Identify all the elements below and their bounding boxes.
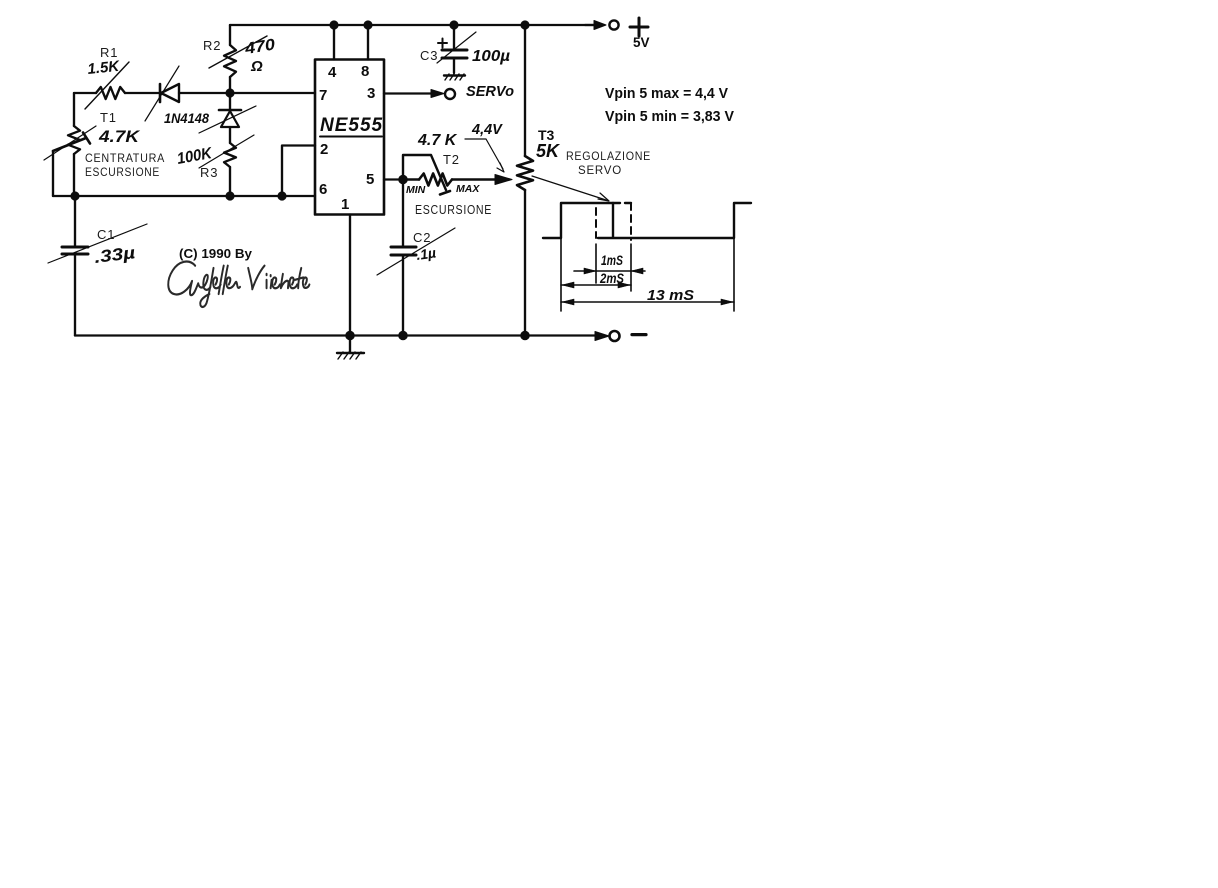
svg-text:CENTRATURA: CENTRATURA (85, 151, 165, 165)
svg-text:2: 2 (320, 141, 328, 158)
svg-text:7: 7 (319, 87, 327, 104)
trimmer T2 (403, 132, 512, 196)
svg-text:1N4148: 1N4148 (164, 110, 209, 126)
svg-text:C1: C1 (97, 227, 115, 242)
wire left vertical T1 branch (73, 93, 75, 196)
svg-text:T1: T1 (100, 110, 117, 125)
svg-text:ESCURSIONE: ESCURSIONE (415, 203, 492, 217)
label Vpin max/min (605, 85, 734, 125)
label REGOLAZIONE SERVO (566, 149, 651, 177)
node junction C3 top (451, 22, 458, 29)
resistor R1 (85, 45, 129, 109)
node junction R2/D1/pin7 (227, 90, 234, 97)
wire arrow T3 to waveform (532, 176, 609, 201)
pin 1 (341, 196, 350, 336)
svg-text:1mS: 1mS (601, 252, 623, 268)
label 4,4V with arrow (465, 122, 504, 172)
node junction T3 bottom (521, 332, 528, 339)
terminal +5V (585, 18, 650, 50)
svg-text:1.5K: 1.5K (87, 58, 121, 78)
wire top +5V rail (230, 24, 600, 26)
dimension 1mS (574, 252, 645, 274)
node junction R3 bottom (227, 193, 234, 200)
svg-text:8: 8 (361, 63, 369, 80)
svg-text:ESCURSIONE: ESCURSIONE (85, 165, 160, 179)
ground (337, 332, 364, 359)
resistor R2 (203, 25, 276, 93)
svg-text:R2: R2 (203, 38, 221, 53)
node junction T1 bottom (72, 193, 79, 200)
svg-text:Ω: Ω (250, 58, 263, 75)
diode D1 1N4148 (145, 66, 209, 126)
trimmer T1 (44, 110, 141, 160)
node junction T3 top (522, 22, 529, 29)
label ESCURSIONE (415, 203, 492, 217)
waveform dimension extension lines (561, 238, 734, 311)
svg-text:5K: 5K (536, 141, 561, 161)
svg-text:.1µ: .1µ (415, 244, 437, 263)
svg-text:SERVo: SERVo (466, 83, 514, 100)
svg-text:2mS: 2mS (599, 270, 624, 286)
pin 4 (328, 22, 337, 81)
diode D2 zener (199, 93, 256, 143)
svg-text:6: 6 (319, 181, 327, 198)
svg-text:4.7K: 4.7K (98, 127, 141, 146)
svg-text:R3: R3 (200, 165, 218, 180)
svg-text:T2: T2 (443, 152, 460, 167)
capacitor C3 (420, 25, 510, 80)
op-amp U1 NE555 box (315, 60, 384, 215)
svg-text:NE555: NE555 (320, 115, 383, 136)
dimension 13mS (561, 287, 734, 305)
resistor R3 (176, 135, 254, 196)
svg-text:C2: C2 (413, 230, 431, 245)
svg-text:4: 4 (328, 64, 337, 81)
svg-text:100µ: 100µ (472, 48, 510, 65)
signature Chapella Vittorio (168, 262, 309, 307)
svg-text:MIN: MIN (406, 184, 426, 196)
pin 5 (366, 171, 403, 188)
label copyright (179, 246, 253, 261)
pin 6 (319, 181, 327, 198)
svg-text:Vpin 5 min = 3,83 V: Vpin 5 min = 3,83 V (605, 108, 734, 125)
capacitor C1 (48, 196, 147, 336)
waveform pulse diagram (543, 203, 751, 240)
svg-text:SERVO: SERVO (578, 163, 622, 177)
svg-text:3: 3 (367, 85, 375, 102)
pin 7 (319, 87, 327, 104)
wire pin6 bottom-left net (53, 195, 315, 197)
svg-text:C3: C3 (420, 48, 438, 63)
node junction pin5/T2/C2 (399, 176, 406, 183)
terminal minus (595, 331, 646, 341)
svg-text:4,4V: 4,4V (471, 122, 503, 138)
pin 8 (361, 22, 371, 80)
capacitor C2 (377, 180, 455, 336)
pin 3 (367, 85, 375, 102)
svg-text:5V: 5V (633, 35, 650, 50)
terminal SERVO output (384, 83, 514, 100)
label CENTRATURA ESCURSIONE (85, 151, 165, 179)
svg-text:Vpin 5 max = 4,4 V: Vpin 5 max = 4,4 V (605, 85, 728, 102)
potentiometer T3 (517, 25, 561, 336)
dimension 2mS (561, 270, 631, 288)
node junction pin2 runner (279, 193, 286, 200)
pin 2 (282, 141, 328, 196)
node junction C2 bottom (399, 332, 406, 339)
svg-text:1: 1 (341, 196, 349, 213)
svg-text:(C) 1990 By: (C) 1990 By (179, 246, 253, 261)
wire T1 wiper return (52, 151, 54, 196)
wire bottom 0V rail (75, 334, 598, 336)
svg-text:REGOLAZIONE: REGOLAZIONE (566, 149, 651, 163)
svg-text:4.7 K: 4.7 K (417, 132, 458, 149)
svg-text:13 mS: 13 mS (647, 287, 694, 304)
svg-text:MAX: MAX (456, 183, 480, 195)
wire R1/diode row (pin 7 net) (74, 92, 315, 94)
svg-text:5: 5 (366, 171, 374, 188)
